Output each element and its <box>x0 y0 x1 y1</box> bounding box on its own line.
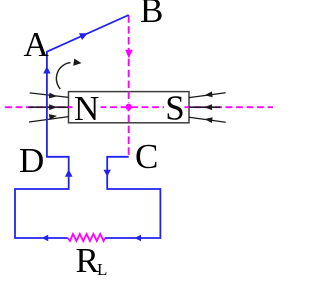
svg-text:D: D <box>19 141 44 180</box>
svg-text:N: N <box>74 89 99 128</box>
svg-text:C: C <box>135 137 158 176</box>
svg-text:L: L <box>97 260 107 279</box>
svg-text:A: A <box>24 25 50 64</box>
svg-text:B: B <box>140 0 163 30</box>
svg-text:S: S <box>165 89 184 128</box>
svg-text:R: R <box>76 241 100 280</box>
